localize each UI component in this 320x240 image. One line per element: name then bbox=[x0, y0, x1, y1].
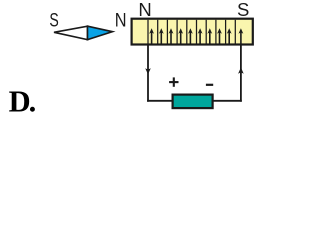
coil turn 1 bbox=[147, 20, 149, 45]
coil turn 3 bbox=[166, 20, 168, 45]
coil turn 6 bbox=[196, 20, 198, 45]
svg-text:S: S bbox=[237, 0, 249, 20]
field arrow 3 bbox=[169, 28, 174, 44]
coil turn 2 bbox=[157, 20, 159, 45]
field arrow 7 bbox=[207, 28, 212, 44]
field arrow 1 bbox=[149, 28, 154, 44]
field arrow 9 bbox=[227, 28, 232, 44]
battery cell bbox=[173, 95, 213, 109]
coil turn 8 bbox=[215, 20, 217, 45]
svg-text:S: S bbox=[49, 10, 58, 31]
svg-text:D: D bbox=[9, 85, 31, 119]
svg-text:N: N bbox=[115, 10, 127, 32]
field arrow 6 bbox=[198, 28, 203, 44]
battery minus terminal sign bbox=[206, 84, 213, 86]
field arrow 2 bbox=[159, 28, 164, 44]
current arrow down on left wire bbox=[145, 68, 151, 74]
solenoid body bbox=[132, 19, 253, 45]
field arrow 10 bbox=[239, 28, 244, 44]
svg-text:.: . bbox=[29, 85, 37, 119]
coil turn 4 bbox=[176, 20, 178, 45]
coil turn 5 bbox=[186, 20, 188, 45]
coil turn 9 bbox=[225, 20, 227, 45]
wire left vertical bbox=[147, 45, 149, 102]
compass needle white S half bbox=[54, 26, 88, 39]
compass needle blue N half bbox=[88, 26, 113, 39]
wire right vertical bbox=[240, 45, 242, 102]
svg-text:N: N bbox=[138, 0, 151, 20]
wire bottom left horizontal bbox=[147, 100, 174, 102]
battery plus terminal sign bbox=[169, 77, 178, 86]
field arrow 8 bbox=[217, 28, 222, 44]
current arrow up on right wire bbox=[238, 67, 244, 73]
field arrow 4 bbox=[178, 28, 183, 44]
coil turn 7 bbox=[205, 20, 207, 45]
coil turn 10 bbox=[234, 20, 236, 45]
wire bottom right horizontal bbox=[212, 100, 242, 102]
field arrow 5 bbox=[188, 28, 193, 44]
